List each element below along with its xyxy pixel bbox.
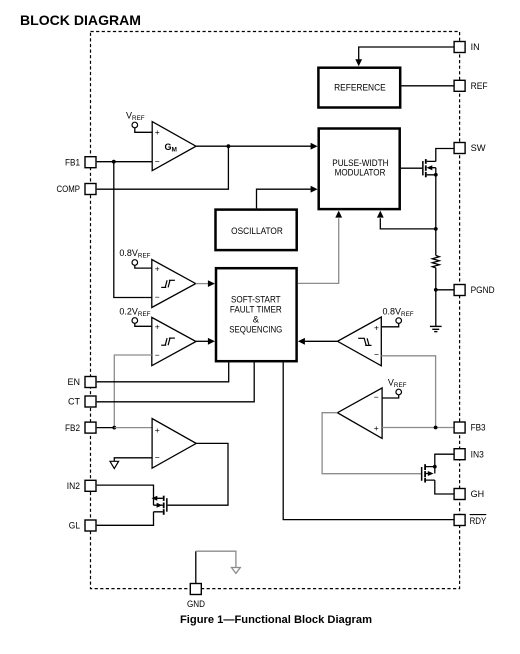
ground signal (open triangle) near GND [232, 568, 241, 574]
node FB3 junction [434, 426, 438, 430]
svg-text:EN: EN [67, 377, 80, 387]
svg-text:FB1: FB1 [65, 157, 80, 167]
pin IN3 [454, 449, 484, 460]
wire COMP to GM output node [97, 146, 229, 189]
wire VREF op-amp noninverting input / FB3 line [382, 427, 454, 429]
resistor [432, 256, 439, 268]
node FB2 junction [112, 426, 116, 430]
svg-text:PULSE-WIDTH: PULSE-WIDTH [332, 158, 388, 168]
wire resistor to ground [435, 268, 437, 327]
wire comparator1 output to soft-start block [196, 283, 209, 285]
pin IN [454, 42, 480, 53]
pin IN2 [67, 480, 96, 491]
wire FB2 op-amp inverting input to signal ground [114, 458, 152, 462]
wire OSCILLATOR to PWM input [257, 189, 314, 208]
pin FB2 [65, 422, 96, 433]
node VREF terminal (right) [382, 377, 407, 398]
pin GND [187, 584, 205, 609]
block OSCILLATOR [216, 210, 297, 251]
pin REF [454, 80, 488, 91]
svg-text:SEQUENCING: SEQUENCING [229, 324, 282, 334]
wire IN3 pin to MOSFET [435, 454, 454, 466]
svg-text:−: − [374, 349, 379, 359]
op-amp FB2 amplifier [152, 419, 196, 469]
pin GL [69, 520, 96, 531]
svg-text:+: + [155, 263, 160, 273]
pin FB3 [454, 422, 486, 433]
wire SW pin to MOSFET drain [436, 149, 454, 162]
svg-text:IN3: IN3 [471, 449, 484, 459]
svg-text:+: + [155, 425, 160, 435]
wire MOSFET to GL pin [97, 512, 154, 526]
wire PWM output to high-side MOSFET gate [401, 167, 422, 169]
block REFERENCE [318, 68, 400, 108]
svg-text:GND: GND [187, 599, 205, 609]
ground (earth) [430, 326, 442, 331]
wire GND pin to signal ground [195, 551, 197, 583]
svg-text:+: + [374, 423, 379, 433]
svg-text:+: + [155, 321, 160, 331]
pin CT [68, 396, 96, 407]
svg-text:RDY: RDY [470, 516, 487, 526]
wire FB2 pin to node [97, 427, 115, 429]
op-amp VREF buffer (right) [337, 388, 382, 439]
transistor IN2/GL MOSFET (mirrored) [152, 496, 168, 515]
wire MOSFET to GH pin [435, 480, 454, 494]
wire source down to resistor [435, 175, 437, 256]
wire soft-start output to PWM bottom [298, 218, 339, 283]
transistor high-side MOSFET [422, 159, 436, 177]
node 0.2VREF terminal [119, 307, 151, 327]
pin FB1 [65, 157, 96, 168]
wire VREF op-amp output to IN3 MOSFET gate [322, 413, 421, 474]
pin PGND [454, 285, 495, 296]
node PGND junction [434, 288, 438, 292]
transistor IN3/GH MOSFET [421, 464, 435, 482]
pin GH [454, 489, 484, 500]
svg-text:MODULATOR: MODULATOR [335, 168, 386, 178]
svg-text:−: − [155, 350, 160, 360]
node 0.8VREF terminal (right) [381, 307, 413, 327]
wire right comparator inverting input to FB3 node [381, 356, 435, 428]
svg-text:GL: GL [69, 521, 80, 531]
svg-text:−: − [155, 157, 160, 167]
block PULSE-WIDTH MODULATOR [319, 129, 400, 210]
svg-text:−: − [155, 453, 160, 463]
wire EN to soft-start block [97, 362, 229, 381]
svg-text:SOFT-START: SOFT-START [231, 294, 281, 304]
pin SW [454, 143, 486, 154]
svg-text:IN: IN [471, 42, 480, 52]
svg-text:PGND: PGND [471, 285, 495, 295]
node MOSFET source junction [434, 173, 438, 177]
block SOFT-START FAULT TIMER & SEQUENCING [216, 268, 297, 361]
pin COMP [57, 184, 97, 195]
svg-text:−: − [155, 292, 160, 302]
svg-text:&: & [253, 315, 260, 325]
wire FB2 node to op-amp noninverting input [114, 427, 152, 429]
wire soft-start to RDY pin [283, 362, 454, 519]
wire IN2 pin to MOSFET [97, 485, 154, 505]
comparator 0.8VREF (left) [152, 260, 196, 308]
svg-text:BLOCK DIAGRAM: BLOCK DIAGRAM [20, 12, 141, 28]
op-amp GM error amplifier [152, 122, 196, 171]
svg-text:GH: GH [471, 489, 485, 499]
wire SW sense to PWM bottom [380, 218, 436, 229]
wire comparator2 inverting input to FB2 node [114, 355, 152, 428]
node 0.8VREF terminal (left) [119, 248, 151, 268]
wire FB2 op-amp output to IN2 MOSFET gate [168, 443, 228, 505]
svg-text:IN2: IN2 [67, 481, 80, 491]
wire IN to REFERENCE [359, 47, 454, 63]
wire comparator2 output to soft-start block [196, 340, 209, 342]
pin EN [67, 377, 96, 388]
svg-text:+: + [374, 322, 379, 332]
node IN3 drain junction [433, 465, 437, 469]
wire CT to soft-start block [97, 362, 255, 401]
arrowhead into REFERENCE top [355, 59, 362, 66]
wire to PGND pin [436, 289, 454, 291]
svg-text:FB3: FB3 [471, 423, 486, 433]
svg-text:−: − [374, 392, 379, 402]
svg-text:FAULT TIMER: FAULT TIMER [230, 305, 282, 315]
node VREF terminal of GM [126, 111, 152, 133]
wire REFERENCE to REF pin [402, 85, 455, 87]
wire GM output to PWM input [196, 145, 314, 147]
comparator 0.8VREF (right, FB3 monitor) [338, 317, 382, 366]
svg-text:REFERENCE: REFERENCE [334, 82, 386, 92]
node FB1 junction [112, 160, 116, 164]
wire FB1 node down to 0.8VREF comparator [114, 162, 152, 298]
dashed boundary box [91, 32, 460, 589]
comparator 0.2VREF (left) [152, 317, 196, 365]
wire FB1 to GM inverting input [97, 161, 153, 163]
node GM output junction [227, 144, 231, 148]
svg-text:FB2: FB2 [65, 423, 80, 433]
svg-text:CT: CT [68, 397, 80, 407]
svg-text:SW: SW [471, 143, 487, 153]
svg-text:Figure 1—Functional Block Diag: Figure 1—Functional Block Diagram [180, 614, 372, 626]
svg-text:REF: REF [471, 81, 488, 91]
ground signal (open triangle) at FB2 op-amp [110, 461, 119, 468]
node SW sense junction [434, 227, 438, 231]
pin RDY (active low) [454, 515, 486, 527]
wire right comparator output to soft-start block [305, 340, 338, 342]
svg-text:OSCILLATOR: OSCILLATOR [231, 226, 283, 236]
svg-text:COMP: COMP [57, 184, 81, 194]
svg-text:+: + [155, 127, 160, 137]
